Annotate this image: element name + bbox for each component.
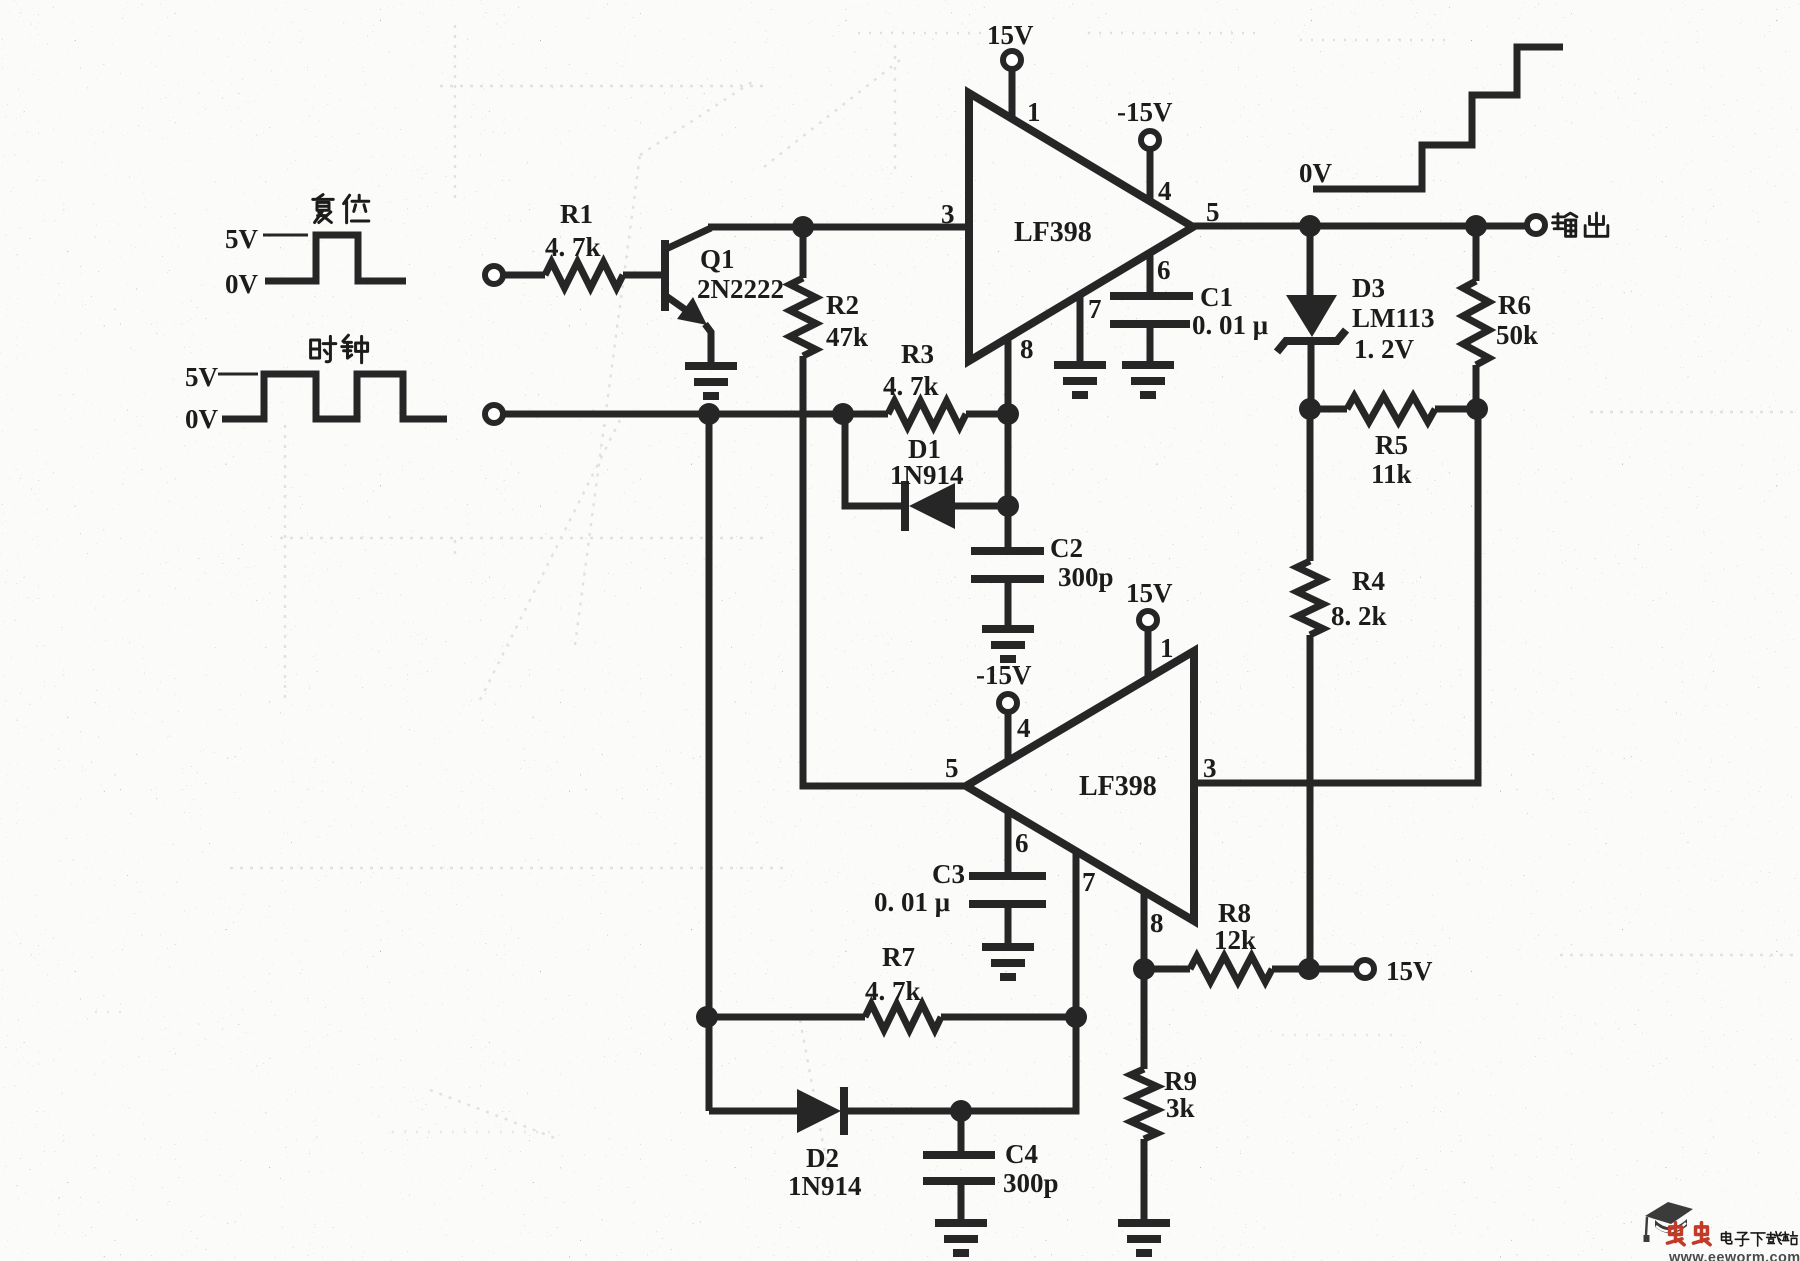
svg-text:6: 6 (1015, 828, 1029, 858)
svg-text:5V: 5V (185, 362, 219, 392)
node output/R6 (1465, 215, 1487, 237)
svg-text:15V: 15V (987, 20, 1034, 50)
svg-text:LF398: LF398 (1014, 217, 1092, 248)
svg-text:7: 7 (1088, 294, 1102, 324)
svg-text:R1: R1 (560, 199, 593, 229)
wire (845, 414, 903, 506)
svg-text:300p: 300p (1003, 1168, 1059, 1198)
svg-text:8: 8 (1150, 908, 1164, 938)
zener D3 LM113 (1307, 226, 1314, 296)
svg-text:12k: 12k (1214, 925, 1256, 955)
label fuwei (reset) (313, 195, 333, 223)
terminal reset input (485, 266, 503, 284)
capacitor C1 (1110, 292, 1193, 300)
svg-text:D2: D2 (806, 1143, 839, 1173)
resistor R2 (800, 227, 807, 278)
svg-text:15V: 15V (1126, 578, 1173, 608)
svg-text:C4: C4 (1005, 1139, 1038, 1169)
ground (C4) (935, 1223, 987, 1253)
svg-text:1N914: 1N914 (890, 460, 964, 490)
svg-text:300p: 300p (1058, 562, 1114, 592)
label shuchu (output) (1553, 213, 1577, 236)
node R3 right / pin8 (997, 403, 1019, 425)
svg-text:4. 7k: 4. 7k (883, 371, 939, 401)
svg-text:6: 6 (1157, 255, 1171, 285)
wire pin8 U2 (1141, 894, 1148, 969)
watermark dianzixiazaizhan (1722, 1232, 1732, 1244)
resistor R9 (1141, 969, 1148, 1069)
wire (1145, 629, 1152, 676)
terminal -15V U2 pin4 (999, 694, 1017, 712)
svg-text:1: 1 (1027, 97, 1041, 127)
svg-text:4: 4 (1017, 713, 1031, 743)
wire (1009, 69, 1016, 119)
transistor Q1 (661, 240, 669, 311)
terminal +15V U1 pin1 (1003, 51, 1021, 69)
diode D1 1N914 (901, 481, 909, 531)
wire pin7 U1 (1077, 296, 1084, 363)
label shizhong (clock) (311, 336, 336, 361)
ground (R9) (1118, 1223, 1170, 1253)
node collector/R2/pin3 (792, 216, 814, 238)
svg-text:15V: 15V (1386, 956, 1433, 986)
wire pin6 U1 (1147, 253, 1154, 294)
ground (C3) (982, 947, 1034, 977)
diode D2 1N914 (709, 1108, 797, 1115)
svg-text:C1: C1 (1200, 282, 1233, 312)
svg-text:C3: C3 (932, 859, 965, 889)
wire (503, 272, 545, 279)
svg-text:50k: 50k (1496, 320, 1538, 350)
terminal clock input (485, 405, 503, 423)
capacitor C2 (1005, 506, 1012, 549)
svg-text:0V: 0V (1299, 158, 1333, 188)
wire output (1193, 223, 1527, 230)
svg-text:1. 2V: 1. 2V (1354, 334, 1415, 364)
terminal 15V (R8) (1356, 960, 1374, 978)
svg-text:0. 01 μ: 0. 01 μ (874, 887, 950, 917)
svg-text:3: 3 (941, 199, 955, 229)
wire pin8 U1 (1005, 338, 1012, 506)
svg-text:R2: R2 (826, 290, 859, 320)
svg-text:R9: R9 (1164, 1066, 1197, 1096)
ground (U1 pin7) (1054, 365, 1106, 395)
ground (Q1 emitter) (685, 366, 737, 396)
resistor R7 (707, 1014, 865, 1021)
svg-text:4. 7k: 4. 7k (865, 976, 921, 1006)
svg-text:LM113: LM113 (1352, 303, 1435, 333)
wire (844, 1017, 1076, 1111)
terminal 15V U2 pin1 (1139, 611, 1157, 629)
svg-text:4. 7k: 4. 7k (545, 232, 601, 262)
node pin8/R8/R9 (1133, 958, 1155, 980)
svg-text:7: 7 (1082, 867, 1096, 897)
svg-text:R4: R4 (1352, 566, 1385, 596)
svg-text:4: 4 (1158, 176, 1172, 206)
svg-text:-15V: -15V (976, 660, 1032, 690)
wire left rail (706, 414, 713, 1111)
watermark graduation cap (1644, 1202, 1694, 1242)
svg-text:-15V: -15V (1117, 97, 1173, 127)
svg-text:R6: R6 (1498, 290, 1531, 320)
node D1/C2 (997, 495, 1019, 517)
svg-text:0V: 0V (225, 269, 259, 299)
wire (1309, 966, 1356, 973)
clock waveform (222, 374, 447, 419)
svg-text:2N2222: 2N2222 (697, 274, 784, 304)
wire (708, 224, 969, 231)
wire (503, 411, 888, 418)
wire (966, 411, 1008, 418)
svg-text:8. 2k: 8. 2k (1331, 601, 1387, 631)
node R4/R8 (1298, 958, 1320, 980)
wire (623, 272, 662, 279)
staircase output waveform (1313, 47, 1563, 189)
svg-text:8: 8 (1020, 334, 1034, 364)
svg-text:R8: R8 (1218, 898, 1251, 928)
node R7 left (696, 1006, 718, 1028)
node R7 right (1065, 1006, 1087, 1028)
terminal output (1527, 216, 1545, 234)
node R5/R6 (1466, 398, 1488, 420)
svg-text:5V: 5V (225, 224, 259, 254)
wire (803, 356, 966, 786)
wire pin3 U2 (1194, 409, 1478, 783)
svg-text:5: 5 (945, 753, 959, 783)
svg-text:Q1: Q1 (700, 244, 735, 274)
svg-text:1N914: 1N914 (788, 1171, 862, 1201)
resistor R6 (1473, 226, 1480, 281)
resistor R8 (1144, 966, 1190, 973)
svg-text:0. 01 μ: 0. 01 μ (1192, 310, 1268, 340)
node clock/left rail (698, 403, 720, 425)
svg-text:11k: 11k (1371, 459, 1412, 489)
wire (1147, 149, 1154, 200)
svg-text:www.eeworm.com: www.eeworm.com (1668, 1250, 1800, 1261)
svg-text:D3: D3 (1352, 273, 1385, 303)
svg-text:3: 3 (1203, 753, 1217, 783)
resistor R3 (888, 401, 966, 427)
wire (955, 503, 1008, 510)
node output/D3 (1299, 215, 1321, 237)
resistor R5 (1310, 406, 1347, 413)
resistor R4 (1307, 409, 1314, 561)
ground (C1) (1122, 365, 1174, 395)
svg-text:C2: C2 (1050, 533, 1083, 563)
node D2/C4 (950, 1100, 972, 1122)
reset waveform (265, 235, 406, 281)
op-amp U1 LF398 (969, 93, 1193, 361)
capacitor C3 (969, 872, 1046, 880)
op-amp U2 LF398 (966, 651, 1194, 921)
svg-text:R5: R5 (1375, 430, 1408, 460)
svg-text:R3: R3 (901, 339, 934, 369)
svg-text:0V: 0V (185, 404, 219, 434)
terminal -15V U1 pin4 (1141, 131, 1159, 149)
ground (C2) (982, 629, 1034, 659)
capacitor C4 (958, 1111, 965, 1153)
svg-text:1: 1 (1160, 633, 1174, 663)
wire pin7 U2 (1073, 853, 1080, 1017)
svg-text:LF398: LF398 (1079, 771, 1157, 802)
wire (1005, 712, 1012, 762)
watermark chongchong (red) (1667, 1223, 1684, 1245)
node R3 left (832, 403, 854, 425)
svg-text:3k: 3k (1166, 1093, 1195, 1123)
resistor R1 (545, 262, 623, 288)
svg-text:R7: R7 (882, 942, 915, 972)
wire pin6 U2 (1005, 810, 1012, 874)
svg-text:47k: 47k (826, 322, 868, 352)
node D3/R5/R4 (1299, 398, 1321, 420)
